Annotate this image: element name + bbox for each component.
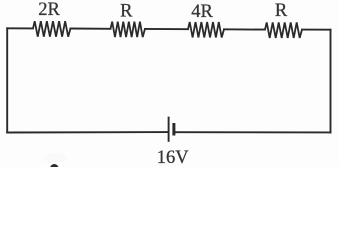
wire bottom-left to battery [7,131,167,133]
faint smudge above stray glyph [44,153,66,163]
stray cropped glyph at bottom edge [50,164,59,174]
battery V1 long plate (+) [168,117,170,142]
resistor R4 (R) [265,22,302,38]
resistor R1 (2R) [33,21,71,37]
battery V1 short plate (-) [172,123,175,136]
svg-text:R: R [275,1,288,21]
wire between R3 and R4 [224,28,265,30]
wire between R2 and R3 [145,28,188,30]
svg-text:16V: 16V [157,148,190,167]
wire between R1 and R2 [71,28,111,30]
wire top-right stub [302,29,331,31]
svg-text:4R: 4R [191,2,213,22]
resistor R3 (4R) [188,22,224,38]
wire left vertical [6,28,8,132]
wire top-left stub [7,27,33,29]
resistor R2 (R) [111,22,146,37]
svg-text:2R: 2R [38,0,60,20]
wire battery to bottom-right [175,131,331,133]
svg-text:R: R [120,1,133,21]
wire right vertical [330,30,332,133]
